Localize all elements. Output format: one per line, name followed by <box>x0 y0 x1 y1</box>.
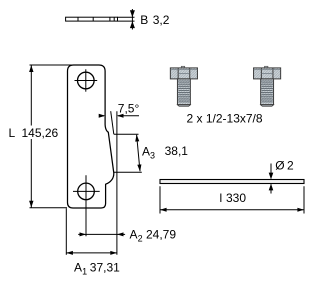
svg-text:1: 1 <box>82 266 87 276</box>
dimension L arrows <box>29 65 33 72</box>
svg-text:Ø: Ø <box>275 158 284 172</box>
bottom hole centerlines <box>73 175 100 236</box>
dimension l extension lines <box>160 186 304 213</box>
dimension B arrows <box>130 10 135 17</box>
dimension l line <box>160 209 304 211</box>
angle extension line C <box>116 111 118 255</box>
dimension B extension lines <box>118 9 135 30</box>
dimension A1 line <box>66 252 117 254</box>
svg-text:7,5°: 7,5° <box>118 101 140 115</box>
svg-text:A: A <box>130 227 138 241</box>
top hole <box>78 72 95 89</box>
bracket outline (front view) <box>68 65 114 208</box>
svg-text:A: A <box>74 260 82 274</box>
svg-text:2: 2 <box>287 158 294 172</box>
angle reference line (slant projection) <box>111 111 114 134</box>
bottom hole <box>78 183 95 200</box>
dimension A1 extension line <box>65 208 67 255</box>
svg-text:L: L <box>9 126 16 140</box>
dimension L extension lines <box>30 65 75 208</box>
svg-text:24,79: 24,79 <box>146 227 176 241</box>
dimension A2 line <box>78 233 125 235</box>
angle 7,5 arrows <box>99 115 104 117</box>
rod (side view) <box>160 180 304 184</box>
bolt 2 <box>254 66 281 106</box>
bolt 1 <box>170 66 197 106</box>
svg-text:l: l <box>220 191 223 205</box>
svg-text:330: 330 <box>226 191 246 205</box>
svg-text:2: 2 <box>138 233 143 243</box>
top hole centerlines <box>75 69 98 91</box>
svg-text:37,31: 37,31 <box>90 260 120 274</box>
dimension A3 extension lines <box>114 134 142 172</box>
dimension A1 arrows <box>66 251 73 255</box>
dimension A3 line <box>137 135 140 171</box>
svg-text:3: 3 <box>150 150 155 160</box>
svg-text:38,1: 38,1 <box>165 144 189 158</box>
svg-text:A: A <box>142 144 150 158</box>
label L 145,26 <box>6 126 58 140</box>
svg-text:2 x 1/2-13x7/8: 2 x 1/2-13x7/8 <box>187 111 263 125</box>
svg-text:145,26: 145,26 <box>22 126 59 140</box>
dia 2 arrows <box>270 164 272 179</box>
svg-text:3,2: 3,2 <box>153 13 170 27</box>
svg-text:B: B <box>140 13 148 27</box>
dimension A2 arrows <box>80 232 87 236</box>
top view bar (plate edge view) <box>66 17 118 21</box>
